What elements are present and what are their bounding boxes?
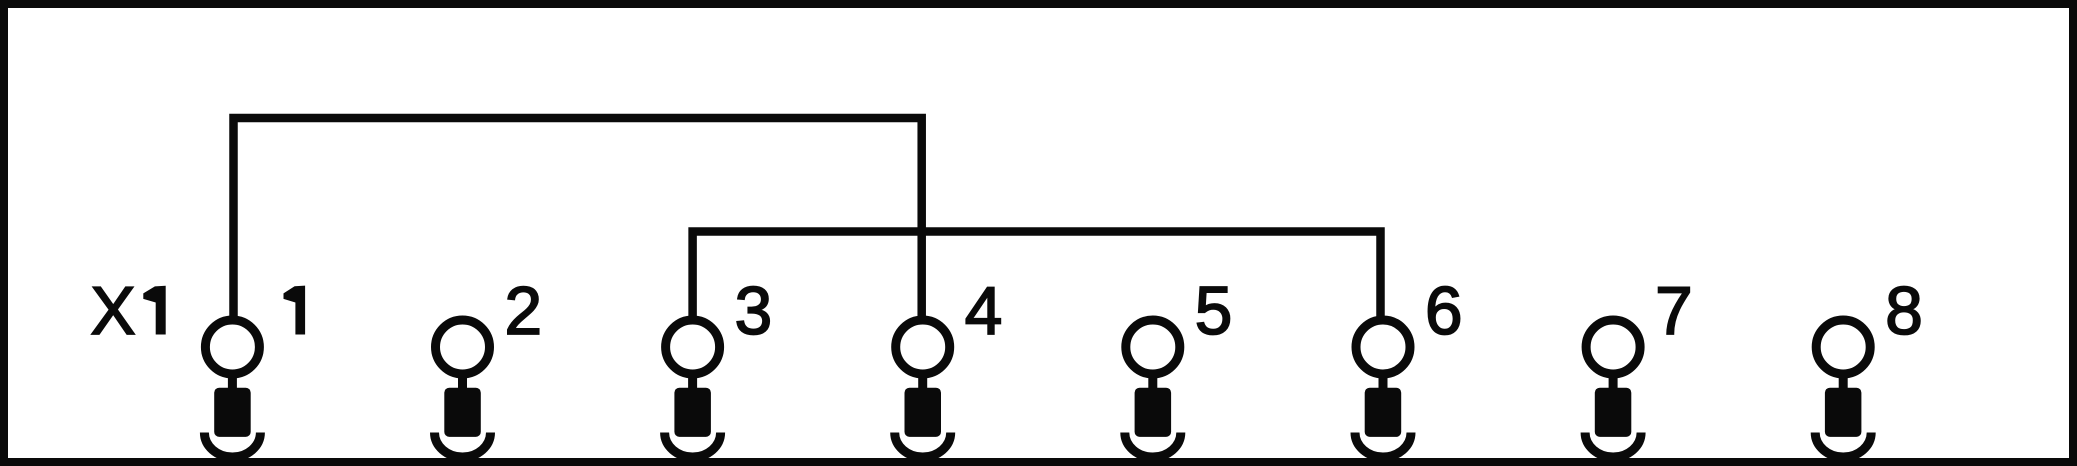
terminal X1:5 bbox=[1125, 320, 1181, 457]
terminal X1:3 bbox=[665, 320, 721, 457]
terminal X1:4 bbox=[895, 320, 951, 457]
terminal X1:7 bbox=[1585, 320, 1641, 457]
terminal X1:6 bbox=[1355, 320, 1411, 457]
svg-text:5: 5 bbox=[1195, 274, 1233, 349]
terminal X1:8 bbox=[1815, 320, 1871, 457]
wire X1:1 to X1:4 bbox=[234, 118, 922, 321]
svg-text:X: X bbox=[91, 274, 136, 349]
svg-text:7: 7 bbox=[1655, 274, 1693, 349]
wire X1:3 to X1:6 bbox=[693, 232, 1381, 322]
terminal X1:2 bbox=[435, 320, 491, 457]
svg-text:2: 2 bbox=[505, 274, 543, 349]
terminal X1:1 bbox=[204, 320, 260, 457]
svg-text:4: 4 bbox=[965, 274, 1003, 349]
svg-text:3: 3 bbox=[735, 274, 773, 349]
svg-text:8: 8 bbox=[1885, 274, 1923, 349]
pin number 1 bbox=[284, 286, 306, 335]
svg-text:6: 6 bbox=[1425, 274, 1463, 349]
